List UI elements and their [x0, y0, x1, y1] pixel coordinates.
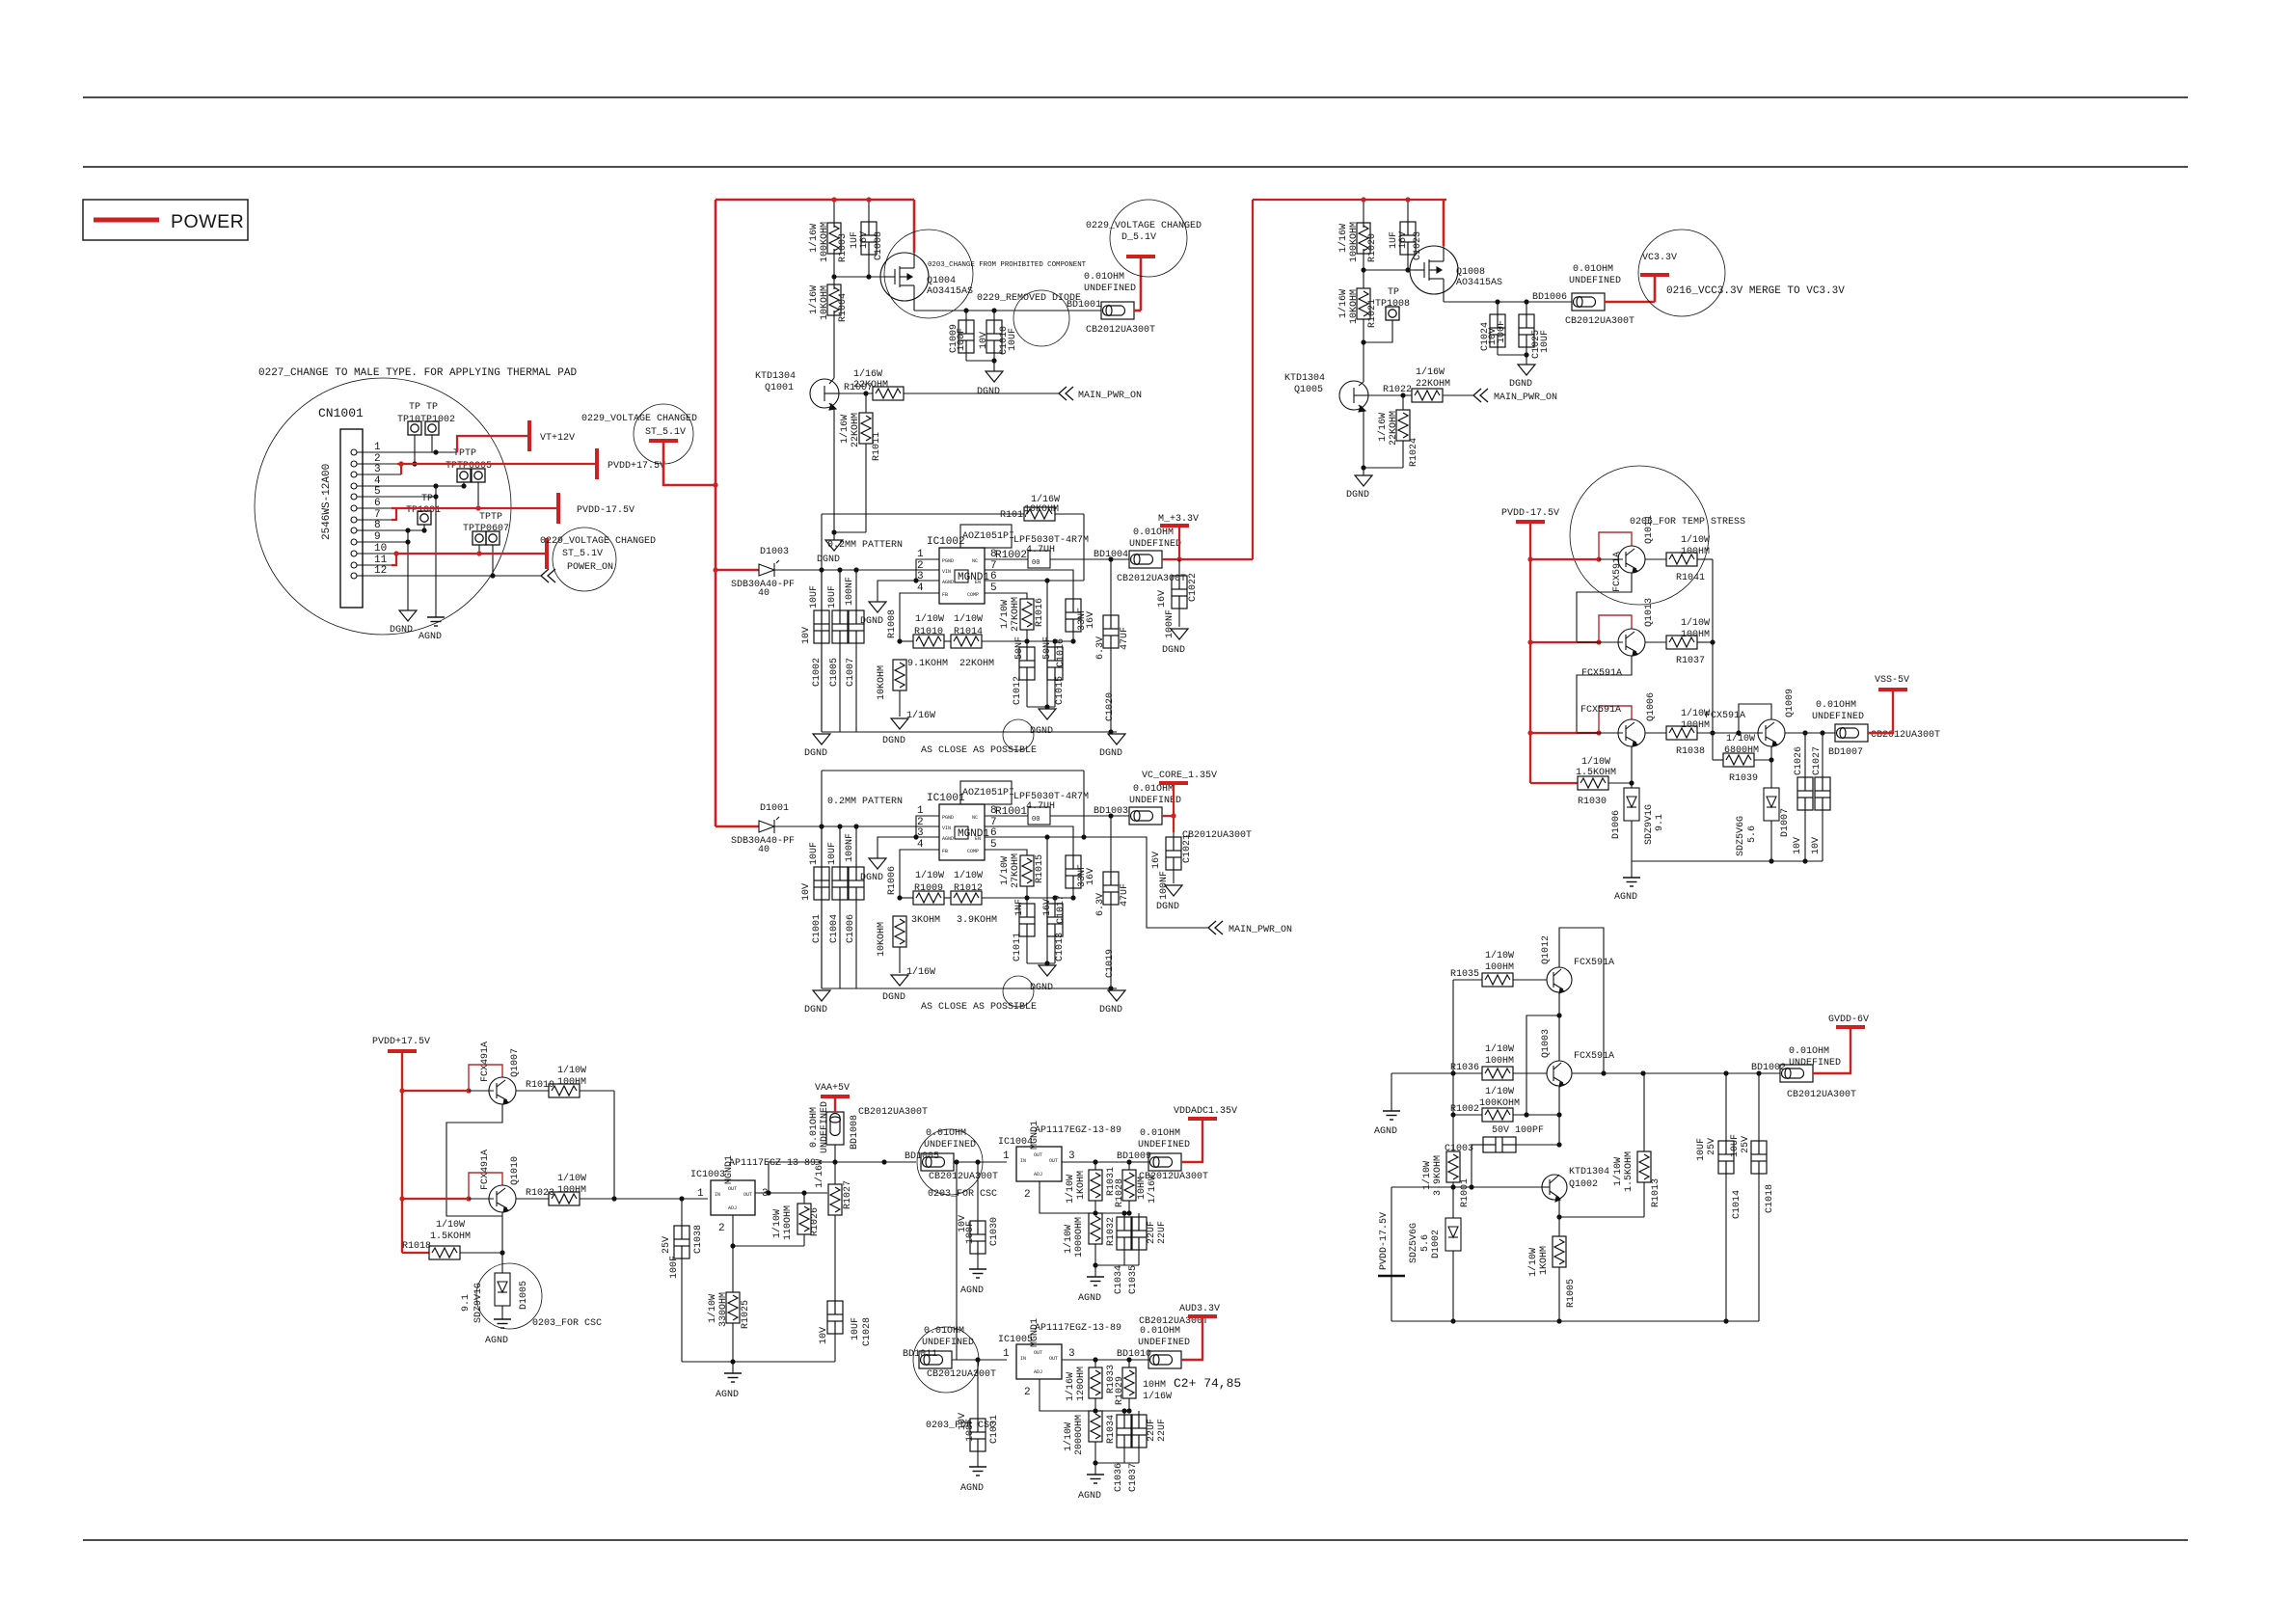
outer frame wires [822, 770, 1084, 771]
svg-text:CB2012UA300T: CB2012UA300T [1139, 1172, 1208, 1182]
svg-text:100KOHM: 100KOHM [1349, 222, 1360, 262]
svg-text:C1006: C1006 [846, 914, 856, 943]
svg-text:110OHM: 110OHM [783, 1205, 794, 1240]
wire pin1-pin3 tie to DGND [916, 559, 939, 581]
svg-text:UNDEFINED: UNDEFINED [922, 1338, 974, 1348]
diode zener D1007 [1770, 760, 1772, 788]
svg-text:DGND: DGND [804, 1005, 827, 1015]
svg-text:DGND: DGND [390, 625, 413, 636]
outer frame wires [822, 513, 1024, 515]
svg-text:VIN: VIN [942, 826, 951, 831]
svg-text:100HM: 100HM [557, 1185, 586, 1196]
wire output row to bead [1572, 1072, 1780, 1074]
svg-text:100KOHM: 100KOHM [1479, 1098, 1520, 1109]
wire input row to chip VIN [774, 569, 939, 571]
svg-text:ST_5.1V: ST_5.1V [645, 427, 686, 438]
left vertical [1452, 980, 1454, 1151]
svg-text:1/10W: 1/10W [915, 613, 944, 625]
svg-text:R1013: R1013 [1651, 1178, 1661, 1207]
svg-text:12: 12 [374, 565, 387, 577]
svg-text:R1012: R1012 [954, 883, 983, 894]
svg-text:POWER_ON: POWER_ON [567, 562, 613, 573]
svg-text:AGND: AGND [1078, 1293, 1101, 1304]
svg-text:0229_VOLTAGE CHANGED: 0229_VOLTAGE CHANGED [1086, 221, 1202, 231]
svg-text:5: 5 [990, 839, 997, 851]
net VAA+5V red [834, 1097, 836, 1112]
svg-text:FCX591A: FCX591A [1612, 552, 1623, 592]
resistor R1021 [1357, 288, 1370, 319]
svg-text:R1026: R1026 [810, 1207, 821, 1236]
svg-text:R1019: R1019 [526, 1080, 554, 1091]
svg-text:VSS-5V: VSS-5V [1875, 675, 1909, 686]
svg-text:100HM: 100HM [557, 1077, 586, 1088]
svg-text:100F: 100F [1497, 320, 1507, 343]
svg-text:AGND: AGND [1374, 1126, 1397, 1137]
svg-text:100F: 100F [957, 328, 967, 351]
svg-text:0.01OHM: 0.01OHM [1140, 1128, 1180, 1139]
svg-text:TP1008: TP1008 [1375, 299, 1410, 310]
net VSS-5V red [1868, 691, 1893, 733]
svg-text:22KOHM: 22KOHM [1389, 411, 1399, 446]
transistor Q1007 FCX491A [402, 1090, 469, 1092]
svg-text:1/16W: 1/16W [906, 966, 935, 978]
svg-text:1/16W: 1/16W [1337, 224, 1349, 253]
svg-text:FB: FB [942, 592, 948, 598]
svg-text:Q1007: Q1007 [510, 1048, 521, 1077]
svg-text:AS CLOSE AS POSSIBLE: AS CLOSE AS POSSIBLE [921, 745, 1037, 756]
svg-text:R1032: R1032 [1106, 1217, 1117, 1246]
svg-text:0.01OHM: 0.01OHM [1789, 1046, 1829, 1057]
wire ADJ pin2 [1040, 1379, 1129, 1411]
svg-text:AGND: AGND [1614, 892, 1637, 903]
svg-text:0.01OHM: 0.01OHM [924, 1326, 964, 1337]
wire FB pin4 [900, 593, 939, 641]
svg-text:5.6: 5.6 [1747, 826, 1758, 843]
svg-text:1/16W: 1/16W [853, 368, 882, 380]
svg-text:6.3V: 6.3V [1095, 636, 1106, 660]
ferrite bead BD1003 [1129, 807, 1162, 825]
svg-text:KTD1304: KTD1304 [1284, 373, 1325, 384]
svg-text:Q1002: Q1002 [1569, 1179, 1598, 1190]
ferrite bead BD1001 [1101, 302, 1134, 319]
capacitor C1028 [827, 1301, 843, 1334]
svg-text:AO3415AS: AO3415AS [927, 286, 973, 297]
wire ADJ pin2 [733, 1215, 804, 1246]
capacitor C1010 [993, 311, 995, 320]
svg-text:FCX591A: FCX591A [1574, 1051, 1614, 1062]
net GVDD-6V red [1813, 1029, 1850, 1073]
svg-text:10V: 10V [1793, 837, 1803, 854]
svg-text:10UF: 10UF [851, 1317, 861, 1340]
svg-text:BD1005: BD1005 [905, 1151, 939, 1162]
resistor R1031 [1094, 1162, 1096, 1170]
svg-text:FCX591A: FCX591A [1705, 711, 1745, 721]
svg-text:PGND: PGND [942, 558, 954, 564]
capacitor C1004 [837, 824, 842, 828]
resistor R1035 [1453, 979, 1482, 981]
svg-text:0.2MM PATTERN: 0.2MM PATTERN [827, 540, 903, 551]
svg-text:3KOHM: 3KOHM [911, 915, 940, 926]
svg-text:1.5KOHM: 1.5KOHM [430, 1232, 471, 1242]
svg-text:10V: 10V [819, 1327, 829, 1344]
svg-text:BD1007: BD1007 [1828, 747, 1863, 758]
svg-text:100F: 100F [669, 1256, 680, 1279]
wire COMP pin5 [985, 850, 1027, 855]
svg-text:16V: 16V [1151, 852, 1162, 869]
svg-text:2: 2 [718, 1223, 725, 1234]
svg-text:5: 5 [374, 486, 381, 498]
svg-text:1/10W: 1/10W [771, 1209, 783, 1238]
wire caps bottom join and EN drop [1027, 706, 1055, 708]
capacitor C1008 [868, 200, 870, 222]
chip IC1005 [1016, 1344, 1062, 1379]
svg-text:BD1008: BD1008 [850, 1115, 860, 1150]
svg-text:Q1011: Q1011 [1644, 515, 1655, 544]
svg-text:9.1KOHM: 9.1KOHM [907, 659, 948, 669]
svg-text:10V: 10V [979, 332, 989, 349]
circle 0229 voltage changed ST_5.1V [634, 404, 693, 464]
wire pin7 riser [392, 508, 396, 520]
svg-text:MAIN_PWR_ON: MAIN_PWR_ON [1229, 925, 1292, 935]
svg-text:25V: 25V [1741, 1136, 1751, 1153]
svg-text:40: 40 [758, 845, 770, 855]
capacitor C1011 [1019, 904, 1035, 936]
svg-text:16V: 16V [1398, 231, 1409, 249]
ground DGND frame left [813, 734, 830, 744]
chip IC1001 [939, 804, 985, 860]
svg-text:VIN: VIN [942, 569, 951, 575]
wire EN to MAIN_PWR_ON [1084, 837, 1208, 928]
resistor R1012 [944, 897, 951, 899]
svg-text:FB: FB [942, 849, 948, 854]
svg-text:CB2012UA300T: CB2012UA300T [1871, 730, 1940, 741]
svg-text:PVDD+17.5V: PVDD+17.5V [608, 461, 665, 472]
svg-text:Q1004: Q1004 [927, 276, 956, 286]
svg-text:R1016: R1016 [1035, 598, 1045, 627]
bottom rail and AGND [1632, 860, 1823, 862]
svg-text:FCX491A: FCX491A [480, 1150, 491, 1190]
svg-text:PVDD-17.5V: PVDD-17.5V [1379, 1212, 1390, 1270]
svg-text:R1014: R1014 [954, 627, 983, 637]
svg-text:3: 3 [374, 464, 381, 475]
svg-text:1/10W: 1/10W [1527, 1248, 1539, 1277]
svg-text:C1008: C1008 [874, 231, 884, 260]
svg-text:16V: 16V [1157, 590, 1168, 608]
capacitor C1038 [681, 1199, 683, 1226]
transistor Q1010 FCX491A [402, 1198, 469, 1200]
svg-text:C1017: C1017 [1056, 895, 1067, 924]
svg-text:FCX591A: FCX591A [1574, 958, 1614, 968]
resistor R1014 [944, 640, 951, 642]
chip IC1003 [711, 1180, 755, 1215]
inductor R1001 [985, 815, 1028, 817]
svg-text:D_5.1V: D_5.1V [1121, 232, 1156, 243]
resistor R1023 [549, 1192, 580, 1205]
svg-text:D1006: D1006 [1611, 810, 1622, 839]
svg-text:UNDEFINED: UNDEFINED [1129, 539, 1181, 550]
svg-text:1/10W: 1/10W [954, 870, 983, 881]
svg-text:330OHM: 330OHM [718, 1292, 729, 1327]
resistor R1006 [893, 916, 906, 947]
resistor R1024 [1402, 395, 1404, 410]
wire gate row [1364, 269, 1414, 271]
transistor Q1006 row [1530, 732, 1599, 734]
svg-text:0203_CHANGE FROM PROHIBITED CO: 0203_CHANGE FROM PROHIBITED COMPONENT [928, 261, 1087, 269]
svg-text:COMP: COMP [967, 849, 979, 854]
svg-text:3.9KOHM: 3.9KOHM [957, 915, 997, 926]
svg-text:BD1006: BD1006 [1532, 292, 1567, 303]
svg-text:ADJ: ADJ [1034, 1369, 1042, 1375]
svg-text:10HM: 10HM [1143, 1380, 1166, 1391]
svg-text:R1025: R1025 [741, 1300, 751, 1329]
svg-text:AP1117EGZ-13-89: AP1117EGZ-13-89 [1035, 1125, 1121, 1136]
svg-text:9: 9 [374, 531, 381, 543]
wire source to bead row [914, 310, 1101, 311]
capacitor C1002 [819, 567, 824, 572]
capacitor C1034 [1123, 1213, 1125, 1217]
svg-text:6: 6 [374, 498, 381, 509]
svg-text:Q1010: Q1010 [510, 1156, 521, 1185]
svg-text:C1027: C1027 [1812, 746, 1823, 775]
svg-text:1/16W: 1/16W [1143, 1391, 1172, 1402]
resistor R1017 [1024, 507, 1055, 521]
svg-text:5: 5 [990, 582, 997, 594]
svg-text:6800HM: 6800HM [1724, 745, 1759, 756]
svg-text:8: 8 [374, 520, 381, 531]
svg-text:TP10TP1002: TP10TP1002 [397, 415, 455, 425]
svg-text:C1022: C1022 [1188, 573, 1199, 602]
svg-text:1/10W: 1/10W [1421, 1161, 1433, 1190]
svg-text:0.2MM PATTERN: 0.2MM PATTERN [827, 797, 903, 807]
resistor R1005 [1558, 1217, 1560, 1236]
svg-text:R1028: R1028 [1115, 1178, 1125, 1207]
circle removed diode note [1013, 290, 1069, 346]
svg-text:16V: 16V [1086, 868, 1096, 885]
border rule bottom [83, 1539, 2188, 1541]
svg-text:0216_VCC3.3V MERGE TO VC3.3V: 0216_VCC3.3V MERGE TO VC3.3V [1666, 285, 1845, 297]
svg-text:4: 4 [917, 839, 924, 851]
wire VT+12V net [457, 436, 529, 452]
svg-text:C1013: C1013 [1055, 933, 1066, 961]
svg-text:10KOHM: 10KOHM [877, 665, 887, 700]
svg-text:R1036: R1036 [1450, 1063, 1479, 1073]
resistor R1020 [1363, 200, 1364, 228]
svg-text:10KOHM: 10KOHM [820, 285, 830, 320]
capacitor C1024 [1497, 302, 1499, 314]
capacitor C1015 [1054, 641, 1056, 647]
svg-text:COMP: COMP [967, 592, 979, 598]
svg-text:UNDEFINED: UNDEFINED [820, 1101, 830, 1153]
transistor Q1013 row [1530, 641, 1599, 643]
svg-text:BD1010: BD1010 [1117, 1349, 1151, 1360]
resistor R1034 [1089, 1411, 1102, 1442]
svg-text:AP1117EGZ-13-89: AP1117EGZ-13-89 [729, 1158, 816, 1169]
resistor R1001 [1446, 1151, 1460, 1182]
svg-text:10V: 10V [801, 627, 812, 644]
resistor R1019 [549, 1084, 580, 1097]
svg-text:PVDD-17.5V: PVDD-17.5V [577, 505, 635, 516]
svg-text:Q1009: Q1009 [1785, 689, 1796, 717]
svg-text:TPTP0005: TPTP0005 [446, 461, 492, 472]
svg-text:Q1012: Q1012 [1541, 935, 1552, 964]
svg-text:C1004: C1004 [829, 914, 840, 943]
ground drop DGND [407, 530, 409, 610]
svg-text:UNDEFINED: UNDEFINED [1084, 284, 1136, 294]
ground DGND frame left [813, 990, 830, 1001]
svg-text:CB2012UA300T: CB2012UA300T [1086, 325, 1155, 336]
svg-text:BD1004: BD1004 [1094, 550, 1128, 560]
svg-text:100KOHM: 100KOHM [820, 222, 830, 262]
svg-text:AGND: AGND [960, 1286, 984, 1296]
svg-text:1KOHM: 1KOHM [1076, 1171, 1087, 1200]
svg-text:TP: TP [1388, 287, 1399, 298]
test point TP1001 single [418, 511, 431, 525]
svg-text:00: 00 [1032, 816, 1040, 824]
wire emitter chain [1577, 656, 1632, 733]
wire base row Q1002 [1391, 1186, 1542, 1188]
svg-text:10UF: 10UF [827, 585, 838, 609]
wire Q1006 emitter down [1631, 746, 1633, 788]
ground DGND [1518, 365, 1535, 375]
svg-text:MAIN_PWR_ON: MAIN_PWR_ON [1078, 391, 1142, 401]
svg-text:DGND: DGND [804, 748, 827, 759]
power terminal ST_5.1V lower [546, 538, 548, 569]
svg-text:22UF: 22UF [1157, 1419, 1168, 1442]
resistor R1016 [1020, 599, 1034, 630]
svg-text:DGND: DGND [882, 992, 905, 1003]
right vertical rail [1712, 559, 1714, 760]
svg-text:R1009: R1009 [914, 883, 943, 894]
svg-text:1NF: 1NF [1014, 899, 1025, 916]
wire pin3 out row [1062, 1359, 1150, 1361]
capacitor C1012 [1019, 647, 1035, 680]
enclosing circle [255, 378, 511, 635]
svg-text:100NF: 100NF [845, 577, 855, 606]
svg-text:0.01OHM: 0.01OHM [1133, 784, 1174, 795]
wire caps join [966, 360, 994, 362]
svg-text:ADJ: ADJ [728, 1205, 737, 1211]
svg-text:VDDADC1.35V: VDDADC1.35V [1174, 1106, 1237, 1117]
power terminal ST_5.1V feed [649, 440, 678, 442]
svg-text:DGND: DGND [1099, 748, 1122, 759]
svg-text:10UF: 10UF [809, 842, 820, 865]
svg-text:100HM: 100HM [1485, 1056, 1514, 1067]
capacitor C1013 [1054, 898, 1056, 904]
capacitor C1022 [1157, 559, 1199, 656]
svg-text:1/10W: 1/10W [1612, 1157, 1624, 1186]
svg-text:FCX591A: FCX591A [1580, 705, 1621, 716]
svg-text:R1037: R1037 [1676, 656, 1705, 666]
svg-text:1/16W: 1/16W [1416, 366, 1445, 378]
svg-text:R1020: R1020 [1367, 233, 1378, 262]
diode D1001 [716, 826, 759, 828]
svg-text:9.1: 9.1 [461, 1294, 472, 1312]
svg-text:100HM: 100HM [1681, 547, 1710, 557]
svg-text:VC_CORE_1.35V: VC_CORE_1.35V [1142, 771, 1217, 781]
svg-text:C1011: C1011 [1013, 933, 1023, 961]
resistor R1036 [1391, 1072, 1482, 1074]
svg-text:IC1004: IC1004 [998, 1137, 1033, 1148]
ferrite bead BD1006 [1572, 293, 1605, 311]
net VC_CORE red [1162, 785, 1174, 832]
wire Q1012 collector loop [1559, 928, 1604, 1073]
svg-text:D1007: D1007 [1780, 808, 1791, 837]
wire Q1003 emitter down [1558, 1086, 1560, 1115]
capacitor C1017 [1066, 855, 1081, 888]
svg-text:R1015: R1015 [1035, 854, 1045, 883]
ferrite bead BD1004 [1129, 551, 1162, 568]
diode zener D1002 [1445, 1218, 1461, 1251]
wire COMP pin5 [985, 593, 1027, 599]
resistor R1025 [732, 1246, 734, 1292]
svg-text:10UF: 10UF [1540, 330, 1551, 353]
svg-text:AOZ1051PI: AOZ1051PI [962, 788, 1014, 798]
net arrow MAIN_PWR_ON [1059, 387, 1073, 400]
svg-text:50V 100PF: 50V 100PF [1492, 1125, 1544, 1136]
svg-text:0.01OHM: 0.01OHM [1084, 272, 1124, 283]
svg-text:AGND: AGND [1078, 1491, 1101, 1502]
wire ADJ pin2 [1040, 1181, 1129, 1213]
svg-text:PGND: PGND [942, 815, 954, 821]
svg-text:50NF: 50NF [1014, 636, 1025, 660]
svg-text:AGND: AGND [716, 1390, 739, 1400]
svg-text:25V: 25V [662, 1236, 672, 1254]
transistor Q1004 MOSFET [880, 253, 929, 301]
wire R1019 down to R1023 row [613, 1091, 615, 1199]
svg-text:1/10W: 1/10W [915, 870, 944, 881]
resistor R1039 [1713, 759, 1723, 761]
svg-text:2: 2 [1024, 1189, 1031, 1201]
svg-text:10UF: 10UF [1696, 1138, 1707, 1161]
svg-text:CB2012UA300T: CB2012UA300T [1565, 316, 1634, 327]
test point TP0607 pair [473, 531, 486, 545]
svg-text:PVDD-17.5V: PVDD-17.5V [1501, 508, 1559, 519]
capacitor C1021 [1151, 832, 1193, 912]
svg-text:22UF: 22UF [1147, 1221, 1157, 1244]
pin wires black [357, 451, 457, 453]
resistor R1022 [1368, 394, 1412, 396]
svg-text:VAA+5V: VAA+5V [815, 1083, 850, 1094]
svg-text:C1007: C1007 [846, 658, 856, 687]
svg-text:IC1003: IC1003 [690, 1170, 725, 1180]
wire PVDD-17.5V net pin6 [392, 507, 558, 509]
resistor R1030 [1530, 782, 1578, 784]
ferrite bead BD1009 [1148, 1153, 1181, 1171]
ground AGND [1391, 1073, 1392, 1111]
resistor R1038 [1666, 726, 1697, 740]
resistor R1008 [893, 660, 906, 690]
resistor R1003 [833, 200, 835, 228]
svg-text:120OHM: 120OHM [1076, 1367, 1087, 1401]
capacitor C1006 [853, 824, 858, 828]
svg-text:47UF: 47UF [1120, 883, 1130, 907]
svg-text:R1001: R1001 [995, 806, 1027, 818]
svg-text:R1010: R1010 [914, 627, 943, 637]
svg-text:C2+ 74,85: C2+ 74,85 [1174, 1376, 1241, 1391]
capacitor C1025 [1526, 302, 1527, 314]
svg-text:AUD3.3V: AUD3.3V [1179, 1304, 1220, 1314]
svg-text:C1021: C1021 [1182, 834, 1193, 863]
svg-text:IN: IN [1020, 1158, 1026, 1164]
svg-text:DGND: DGND [817, 555, 840, 565]
net arrow POWER_ON pin12 [541, 569, 555, 582]
net arrow MAIN_PWR_ON [1208, 921, 1223, 934]
svg-text:D1003: D1003 [760, 547, 789, 557]
svg-text:4: 4 [917, 582, 924, 594]
svg-text:CB2012UA300T: CB2012UA300T [858, 1107, 928, 1118]
svg-text:2: 2 [1024, 1387, 1031, 1398]
wire main red bus vertical [715, 200, 717, 826]
